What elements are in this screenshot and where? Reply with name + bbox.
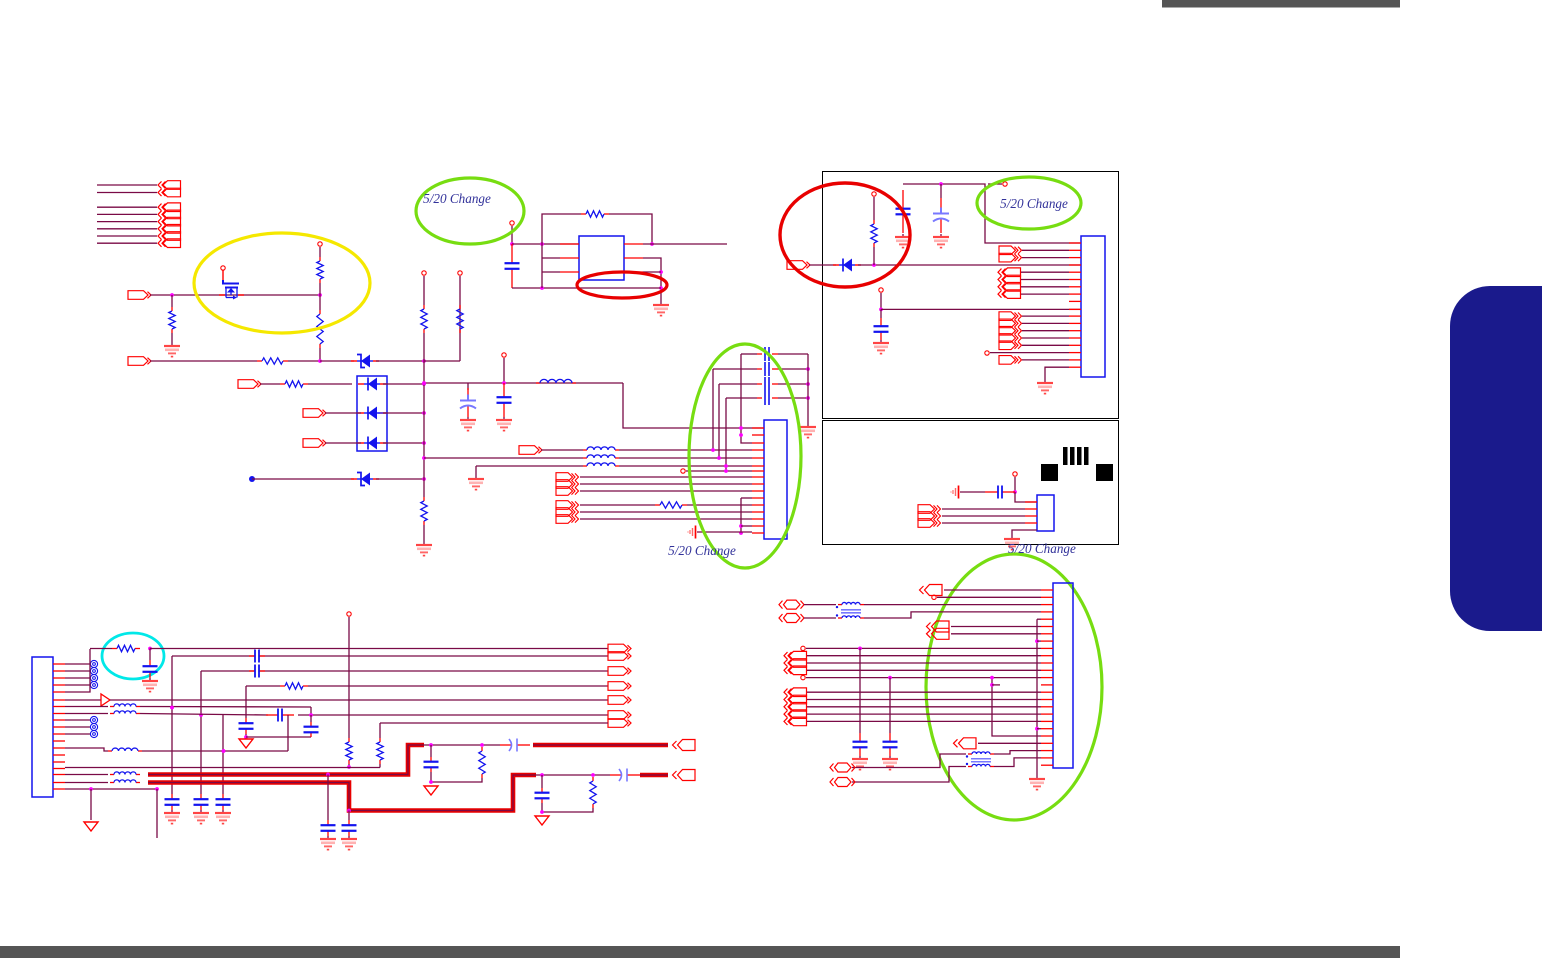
wire bus to corner: [424, 360, 460, 362]
wire PR2b row: [951, 633, 1041, 635]
wire P11-3: [1021, 286, 1069, 288]
pin J2-4: [752, 449, 764, 451]
wire R2 to node2: [319, 283, 321, 295]
pin J2-10: [752, 490, 764, 492]
wire P8-2 to J2: [580, 511, 752, 513]
wire row686 long: [308, 685, 608, 687]
junction col172: [170, 706, 174, 710]
wire capstack v1: [741, 354, 752, 443]
port PL7: [673, 770, 696, 781]
junction TB-br: [347, 809, 351, 813]
thick trace TB: [148, 775, 536, 811]
testpoint TP1: [221, 266, 225, 270]
wire pin19 drop: [90, 789, 92, 820]
wire J4 gnd route: [1012, 530, 1037, 536]
wire net-A1: [97, 192, 157, 194]
pin J3-15: [1069, 344, 1081, 346]
wire TP10 down: [880, 293, 882, 309]
pin J5-19: [1041, 720, 1053, 722]
highlight yellow ellipse: [194, 233, 370, 333]
port P11-1: [998, 268, 1021, 277]
port PR1: [920, 585, 943, 596]
capacitor C21: [853, 733, 868, 756]
signal ground SG1: [688, 526, 696, 539]
node dot N1: [249, 476, 255, 482]
off-page port PB1: [158, 210, 181, 219]
resistor R17: [590, 777, 596, 808]
wire row671: [201, 670, 608, 672]
pin J3-13: [1069, 330, 1081, 332]
pin J2-13: [752, 511, 764, 513]
pin J2-14: [752, 518, 764, 520]
power ground PG2: [424, 786, 438, 795]
ground G4: [460, 417, 476, 431]
capacitor C19: [321, 820, 336, 836]
ground G17: [320, 836, 336, 850]
pin J3-4: [1069, 264, 1081, 266]
capacitor C7: [985, 485, 1015, 499]
wire P12-4: [1022, 337, 1069, 339]
wire net-B5: [97, 242, 157, 244]
resistor R14: [346, 738, 352, 764]
junction col246: [244, 735, 248, 739]
pin J1-11: [53, 733, 65, 735]
capacitor C22: [883, 733, 898, 756]
port PL2: [608, 667, 631, 676]
pin J5-6: [1041, 626, 1053, 628]
wire row767: [65, 767, 380, 769]
testpoint TP6: [502, 353, 506, 357]
wire feedback right: [609, 214, 652, 244]
wire C5 stub: [940, 184, 942, 198]
junction row715-311: [309, 713, 313, 717]
capacitor CS2: [757, 362, 778, 376]
wire chip left bus: [541, 244, 543, 288]
wire pin19b drop: [156, 789, 158, 838]
junction bus-361: [422, 359, 426, 363]
wire row686 left: [246, 685, 280, 687]
junction node2: [318, 293, 322, 297]
wire pin5 riser: [65, 649, 90, 692]
wire TP12 down: [1014, 477, 1016, 492]
port P12-3: [999, 326, 1022, 335]
wire P7-3 to J2: [580, 490, 752, 492]
wire col1037: [1036, 619, 1038, 776]
off-page port PB2: [158, 217, 181, 226]
resistor R7: [280, 381, 308, 387]
pin J1-17: [53, 774, 65, 776]
wire HP1 to T1: [804, 604, 836, 606]
wire row715 mid: [298, 714, 608, 716]
highlight green ellipse 2: [977, 177, 1081, 229]
port P12-1: [999, 312, 1022, 321]
wire HP2 to T1: [804, 617, 836, 619]
wire J1-4 to NC: [65, 684, 90, 686]
wire J1-2 to NC: [65, 670, 90, 672]
port P12-4: [999, 334, 1022, 343]
testpoint TP16: [801, 675, 805, 679]
wire T2a out: [994, 751, 1041, 754]
pin J5-21: [1041, 735, 1053, 737]
no-connect NC2: [90, 667, 97, 674]
junction gnd-288: [659, 286, 663, 290]
wire r15 bottom: [379, 764, 381, 768]
wire D6 to pin4 row: [858, 264, 1081, 266]
port P10-2: [999, 253, 1022, 262]
wire TA rc rail: [431, 772, 482, 782]
diode D3 tick: [378, 412, 387, 414]
wire column x172: [171, 656, 173, 794]
ground G11: [1037, 380, 1053, 394]
pin J1-6: [53, 699, 65, 701]
junction node3: [318, 359, 322, 363]
wire L4 to J2: [619, 465, 752, 467]
pin J1-10: [53, 726, 65, 728]
pin J4-3: [1025, 515, 1037, 517]
wire PR3-1 row: [807, 655, 1041, 657]
capacitor C15 series: [500, 739, 530, 752]
wire C14 branch: [310, 715, 312, 722]
port PR5: [954, 738, 977, 749]
wire D3 to bus: [383, 412, 424, 414]
wire P14 row2: [942, 515, 1025, 517]
pin J1-1: [53, 663, 65, 665]
junction TA-2: [480, 743, 484, 747]
wire R7 to D2: [308, 383, 352, 385]
pin J1-12: [53, 740, 65, 742]
diode D2: [358, 378, 386, 391]
pin J5-2: [1041, 596, 1053, 598]
pin J2-8: [752, 476, 764, 478]
resistor R5: [421, 305, 427, 333]
wire v5-526 stub: [741, 525, 752, 527]
connector J5: [1053, 583, 1073, 768]
power ground PG4: [84, 822, 98, 831]
capacitor C11: [216, 794, 231, 810]
pin J5-25: [1041, 764, 1053, 766]
junction col201: [199, 713, 203, 717]
wire R1 to ground: [171, 295, 173, 307]
wire TP9 stub: [988, 183, 1002, 185]
wire PR4-2 row: [807, 699, 1041, 701]
wire TA rc cap stub: [430, 745, 432, 757]
pin J3-14: [1069, 337, 1081, 339]
thick trace TA: [148, 745, 424, 775]
resistor R16: [479, 747, 485, 778]
no-connect NC4: [90, 681, 97, 688]
port P11-3: [998, 283, 1021, 292]
wire col992: [992, 678, 1041, 736]
capacitor C5 polarized: [933, 198, 949, 233]
resistor R10: [655, 502, 687, 508]
resistor R4: [257, 358, 288, 364]
junction supply: [939, 182, 943, 186]
junction v5-526: [739, 524, 743, 528]
pin J3-5: [1069, 271, 1081, 273]
pin J4-2: [1025, 508, 1037, 510]
junction col1037a: [1035, 639, 1039, 643]
wire v5 vertical: [740, 498, 742, 533]
wire capstack row 1: [741, 353, 757, 355]
capacitor C8: [143, 660, 158, 678]
port PR4-4: [784, 710, 807, 719]
wire row700: [65, 699, 101, 701]
wire C8 stub: [149, 649, 151, 661]
capacitor C6: [874, 318, 889, 340]
port P14 triple: [918, 505, 941, 514]
choke L7: [110, 772, 140, 783]
wire TA thin: [424, 744, 500, 746]
wire pin17a to L7: [65, 774, 108, 776]
wire row649 left: [90, 648, 112, 650]
capacitor C3: [497, 383, 512, 417]
wire col288: [287, 715, 289, 751]
wire J1-9 to NC: [65, 719, 90, 721]
signal ground SG2: [951, 486, 959, 499]
junction L5a: [170, 706, 174, 710]
capacitor C24 series: [249, 664, 265, 678]
highlight red ellipse small: [577, 272, 667, 298]
pin J2-11: [752, 497, 764, 499]
off-page port PB5: [158, 239, 181, 248]
capacitor C1: [505, 244, 520, 288]
choke L5: [110, 704, 140, 714]
port PR4-5: [784, 717, 807, 726]
wire L5b out: [140, 714, 268, 716]
pin J5-22: [1041, 742, 1053, 744]
port P7-2: [556, 480, 579, 489]
wire PR1 row: [944, 589, 1041, 591]
port PL1a: [608, 644, 631, 653]
junction br-648: [858, 647, 862, 651]
box section 1 border: [823, 172, 1119, 419]
wire P12-1: [1022, 315, 1069, 317]
capacitor C2 polarized: [460, 388, 476, 417]
wire PR4-1 row: [807, 691, 1041, 693]
wire col1037a stub: [1037, 640, 1041, 642]
wire D4 to bus: [383, 442, 424, 444]
ground G12: [1004, 536, 1020, 550]
ground G7: [468, 476, 484, 490]
wire PR3-2 row: [807, 662, 1041, 664]
wire cap bottom row: [512, 287, 661, 289]
navy side tab: [1450, 286, 1542, 631]
wire R8 to ground: [423, 525, 425, 542]
pin J2-16: [752, 532, 764, 534]
junction chip-in: [510, 242, 514, 246]
capacitor C16: [424, 757, 439, 772]
pin J5-23: [1041, 750, 1053, 752]
wire pin18 to L7: [65, 782, 108, 784]
pin J2-7: [752, 470, 764, 472]
junction row450: [711, 448, 715, 452]
wire capstack row 4 right: [778, 397, 808, 399]
wire P8-1 b: [687, 504, 752, 506]
pin J5-11: [1041, 662, 1053, 664]
capacitor C4: [896, 190, 911, 233]
capacitor C12: [239, 718, 254, 734]
junction d6-node: [872, 263, 876, 267]
testpoint TP13: [347, 612, 351, 616]
highlight red ellipse large: [780, 183, 910, 287]
pin J2-5: [752, 457, 764, 459]
capacitor CS1: [757, 347, 778, 361]
junction rail-384: [806, 382, 810, 386]
pin J5-13: [1041, 677, 1053, 679]
port PR3-1: [784, 651, 807, 660]
wire tp13 column: [348, 617, 350, 738]
pin J1-14: [53, 754, 65, 756]
pin J4-1: [1025, 501, 1037, 503]
pin J5-15: [1041, 691, 1053, 693]
junction col992b: [990, 683, 994, 687]
pin J5-24: [1041, 757, 1053, 759]
capacitor C23 series: [249, 649, 265, 663]
ground G15: [193, 810, 209, 824]
ground G3: [653, 302, 669, 316]
ground G19: [852, 756, 868, 770]
wire pin2 link: [542, 257, 560, 259]
wire P8-1 a: [580, 504, 655, 506]
wire P9 into box: [809, 264, 836, 266]
pin J1-13: [53, 747, 65, 749]
port P11-4: [998, 290, 1021, 299]
junction TA-br: [326, 773, 330, 777]
port P12-2: [999, 319, 1022, 328]
ground G9: [933, 234, 949, 248]
off-page port PB4: [158, 232, 181, 241]
port P7-1: [556, 473, 579, 482]
pin J5-9: [1041, 647, 1053, 649]
junction row767-349: [347, 765, 351, 769]
resistor R3: [317, 310, 323, 348]
wire chip input row: [512, 243, 579, 245]
wire L5a out: [140, 706, 311, 709]
wire TP4 down: [423, 276, 425, 305]
wire P10-2: [1022, 257, 1069, 259]
wire D5 to bus: [376, 478, 424, 480]
connector J2: [764, 420, 787, 539]
wire P7-1 to J2: [580, 476, 752, 478]
port P7-3: [556, 487, 579, 496]
power ground PG3: [535, 816, 549, 825]
hexport HP1: [779, 600, 804, 609]
wire cap rail: [807, 354, 809, 424]
wire P8-3 to J2: [580, 518, 752, 520]
wire P2 to R4: [150, 360, 257, 362]
wire capstack v2: [712, 369, 714, 450]
pin J5-16: [1041, 699, 1053, 701]
port PR4-1: [784, 688, 807, 697]
pin U1-2: [560, 257, 579, 259]
resistor R15: [377, 738, 383, 764]
fiducial bars: [1063, 447, 1089, 465]
svg-text:5/20 Change: 5/20 Change: [1000, 196, 1068, 211]
junction bus-384: [422, 382, 426, 386]
wire tp12 to J4: [1015, 492, 1037, 502]
wire R4 to node3: [288, 360, 320, 362]
wire pin13 jog: [65, 748, 108, 751]
pin J5-3: [1041, 604, 1053, 606]
inductor L3: [583, 455, 619, 458]
junction row458: [717, 456, 721, 460]
port P14c: [918, 519, 941, 528]
diode D5 zener: [351, 473, 379, 486]
junction rail-369: [806, 367, 810, 371]
junction fb-left: [540, 242, 544, 246]
inductor L2: [583, 447, 619, 450]
port P2 input: [128, 357, 151, 366]
highlight green ellipse 4: [926, 554, 1102, 820]
wire corner up R6: [459, 276, 461, 361]
wire J3 gnd route: [1045, 367, 1069, 380]
power ground PG1: [239, 739, 253, 748]
wire r14 bottom: [348, 764, 350, 767]
pin J2-6: [752, 465, 764, 467]
pin J3-8: [1069, 293, 1081, 295]
junction bus-443: [422, 441, 426, 445]
wire col992 stub: [992, 684, 1000, 686]
wire v5 bus: [741, 497, 752, 499]
connector J3: [1081, 236, 1105, 377]
wire capstack row 2: [713, 368, 757, 370]
wire TP7 row: [686, 470, 752, 472]
wire row678: [806, 677, 1041, 679]
annotation text 3: [668, 543, 736, 558]
port P4 input: [303, 409, 326, 418]
junction rail-398: [806, 396, 810, 400]
wire PR4-5 row: [807, 720, 1041, 722]
port P8-3: [556, 515, 579, 524]
transformer T2: [966, 752, 994, 767]
junction cap-bot: [540, 286, 544, 290]
junction bus-458: [422, 456, 426, 460]
testpoint TP2: [318, 242, 322, 246]
wire row737: [246, 736, 311, 738]
wire capstack v4: [725, 398, 727, 471]
hexport HP3: [830, 763, 855, 772]
wire SG1 row: [697, 531, 752, 533]
pin U1-6: [624, 271, 643, 273]
pin J1-15: [53, 761, 65, 763]
port PR4-2: [784, 695, 807, 704]
pin U1-1: [560, 243, 579, 245]
wire capstack v3: [718, 384, 720, 458]
inductor L1: [536, 379, 576, 383]
wire J1-11 to NC: [65, 733, 90, 735]
junction tp12: [1013, 490, 1017, 494]
junction row466: [724, 464, 728, 468]
wire L2 to J2: [619, 449, 752, 451]
wire U1 pin5 route: [643, 258, 661, 302]
pin J2-12: [752, 504, 764, 506]
annotation text 2: [1000, 196, 1068, 211]
ground G18: [341, 836, 357, 850]
no-connect NC7: [90, 730, 97, 737]
wire PR5 row: [978, 742, 1041, 744]
fiducial square left: [1041, 464, 1058, 481]
wire capstack row 4: [726, 397, 757, 399]
wire P14 row3: [942, 522, 1025, 524]
junction v5-533: [739, 531, 743, 535]
resistor R1: [169, 307, 175, 333]
wire node3 to D1: [320, 360, 354, 362]
wire r15 top: [379, 723, 381, 738]
port P10-1: [999, 246, 1022, 255]
pin J5-17: [1041, 706, 1053, 708]
pin J3-17: [1069, 359, 1081, 361]
wire P6 to L2: [541, 449, 583, 451]
